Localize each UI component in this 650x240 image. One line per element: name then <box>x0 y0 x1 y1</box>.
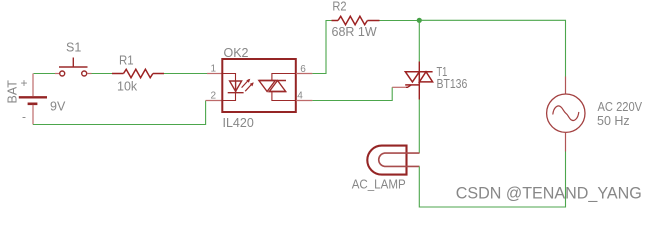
svg-text:1: 1 <box>211 64 217 75</box>
battery top pin <box>32 74 34 97</box>
S1 right lead <box>87 73 92 75</box>
R1 left lead <box>112 73 124 75</box>
R2 zigzag body <box>338 16 367 24</box>
T1 gate lead <box>406 85 411 87</box>
photo-triac pin6 connect wire <box>272 74 295 81</box>
switch S1 <box>55 58 92 77</box>
S1 left lead <box>55 73 60 75</box>
wire R2 to junction <box>380 20 420 22</box>
T1 top bar <box>405 71 432 73</box>
AC source V1 <box>547 77 585 152</box>
LED light arrow 2 <box>245 83 253 91</box>
AC source top pin stub <box>565 77 567 95</box>
lamp filament <box>379 153 420 166</box>
op-to-coupler OK2 box <box>222 59 295 112</box>
R2 left lead <box>332 20 339 22</box>
svg-text:6: 6 <box>300 64 306 75</box>
svg-text:CSDN @TENAND_YANG: CSDN @TENAND_YANG <box>456 183 642 202</box>
S1 left contact circle <box>60 71 65 76</box>
photo-triac bottom bar <box>268 91 286 93</box>
T1 middle vertical <box>418 72 420 85</box>
junction node <box>417 18 422 23</box>
photo-triac right triangle <box>269 81 285 92</box>
svg-text:4: 4 <box>297 91 303 102</box>
LED cathode bar <box>228 92 244 94</box>
LED vertical line through <box>235 81 237 93</box>
wire pin6 up to R2 <box>312 21 331 74</box>
svg-text:R2: R2 <box>332 0 346 14</box>
svg-text:OK2: OK2 <box>224 46 249 60</box>
svg-text:50 Hz: 50 Hz <box>597 114 630 128</box>
R2 right lead <box>367 20 379 22</box>
pin 2 stub <box>206 100 222 102</box>
LED anode connect wire <box>223 74 236 82</box>
T1 gate stub <box>392 86 406 88</box>
wire junction to top right corner <box>419 20 565 76</box>
lamp envelope <box>367 146 406 175</box>
svg-text:AC 220V: AC 220V <box>598 100 643 114</box>
wire pin4 to T1 gate <box>312 87 392 100</box>
wire lamp to bottom rail <box>419 152 565 208</box>
pin 4 stub <box>296 100 312 102</box>
LED triangle <box>230 81 242 91</box>
S1 actuator bar <box>59 66 88 68</box>
wire junction down to T1 <box>418 20 420 61</box>
photo-triac top bar <box>259 80 286 82</box>
AC source sine wave <box>553 106 579 121</box>
T1 bottom pin stub <box>418 85 420 100</box>
svg-text:BT136: BT136 <box>437 77 468 91</box>
svg-text:+: + <box>21 76 28 90</box>
svg-text:10k: 10k <box>117 80 138 94</box>
photo-triac left triangle <box>259 81 275 92</box>
T1 left triangle <box>405 72 419 82</box>
R1 right lead <box>153 73 164 75</box>
battery BAT 9V <box>19 97 47 124</box>
T1 right triangle <box>419 72 432 82</box>
wire battery minus bottom rail <box>33 101 206 125</box>
svg-text:AC_LAMP: AC_LAMP <box>352 176 406 191</box>
svg-text:-: - <box>22 110 26 124</box>
R1 zigzag body <box>124 69 153 77</box>
pin 6 stub <box>296 73 312 75</box>
T1 lower-left bar <box>405 84 419 86</box>
svg-text:R1: R1 <box>119 54 134 68</box>
LED light arrow 1 <box>242 79 250 87</box>
OK2 internal photo-triac <box>259 74 295 101</box>
resistor R1 10k <box>112 69 164 77</box>
AC source circle <box>547 94 585 132</box>
photo-triac pin4 connect wire <box>272 92 295 101</box>
AC source bottom pin stub <box>565 132 567 151</box>
svg-text:68R 1W: 68R 1W <box>332 25 377 39</box>
svg-text:2: 2 <box>211 91 217 102</box>
battery long plate (+) <box>19 96 47 98</box>
pin 1 stub <box>207 73 222 75</box>
wire T1 to lamp <box>418 100 420 154</box>
svg-text:9V: 9V <box>50 100 66 114</box>
OK2 internal LED <box>223 74 254 101</box>
battery short plate (-) <box>28 103 38 106</box>
triac T1 BT136 <box>405 62 432 100</box>
resistor R2 68R 1W <box>332 16 380 24</box>
wire R1 to pin1 <box>164 73 207 75</box>
S1 right contact circle <box>82 71 87 76</box>
wire S1 to R1 <box>92 73 113 75</box>
svg-text:S1: S1 <box>66 41 81 55</box>
wire battery plus to S1 <box>34 73 56 75</box>
T1 top pin stub <box>418 62 420 72</box>
svg-text:BAT: BAT <box>6 80 20 104</box>
battery bottom pin <box>32 105 34 125</box>
LED cathode connect wire <box>223 93 236 101</box>
S1 actuator stem <box>72 58 74 68</box>
lamp AC_LAMP <box>367 146 419 175</box>
svg-text:IL420: IL420 <box>223 116 254 130</box>
